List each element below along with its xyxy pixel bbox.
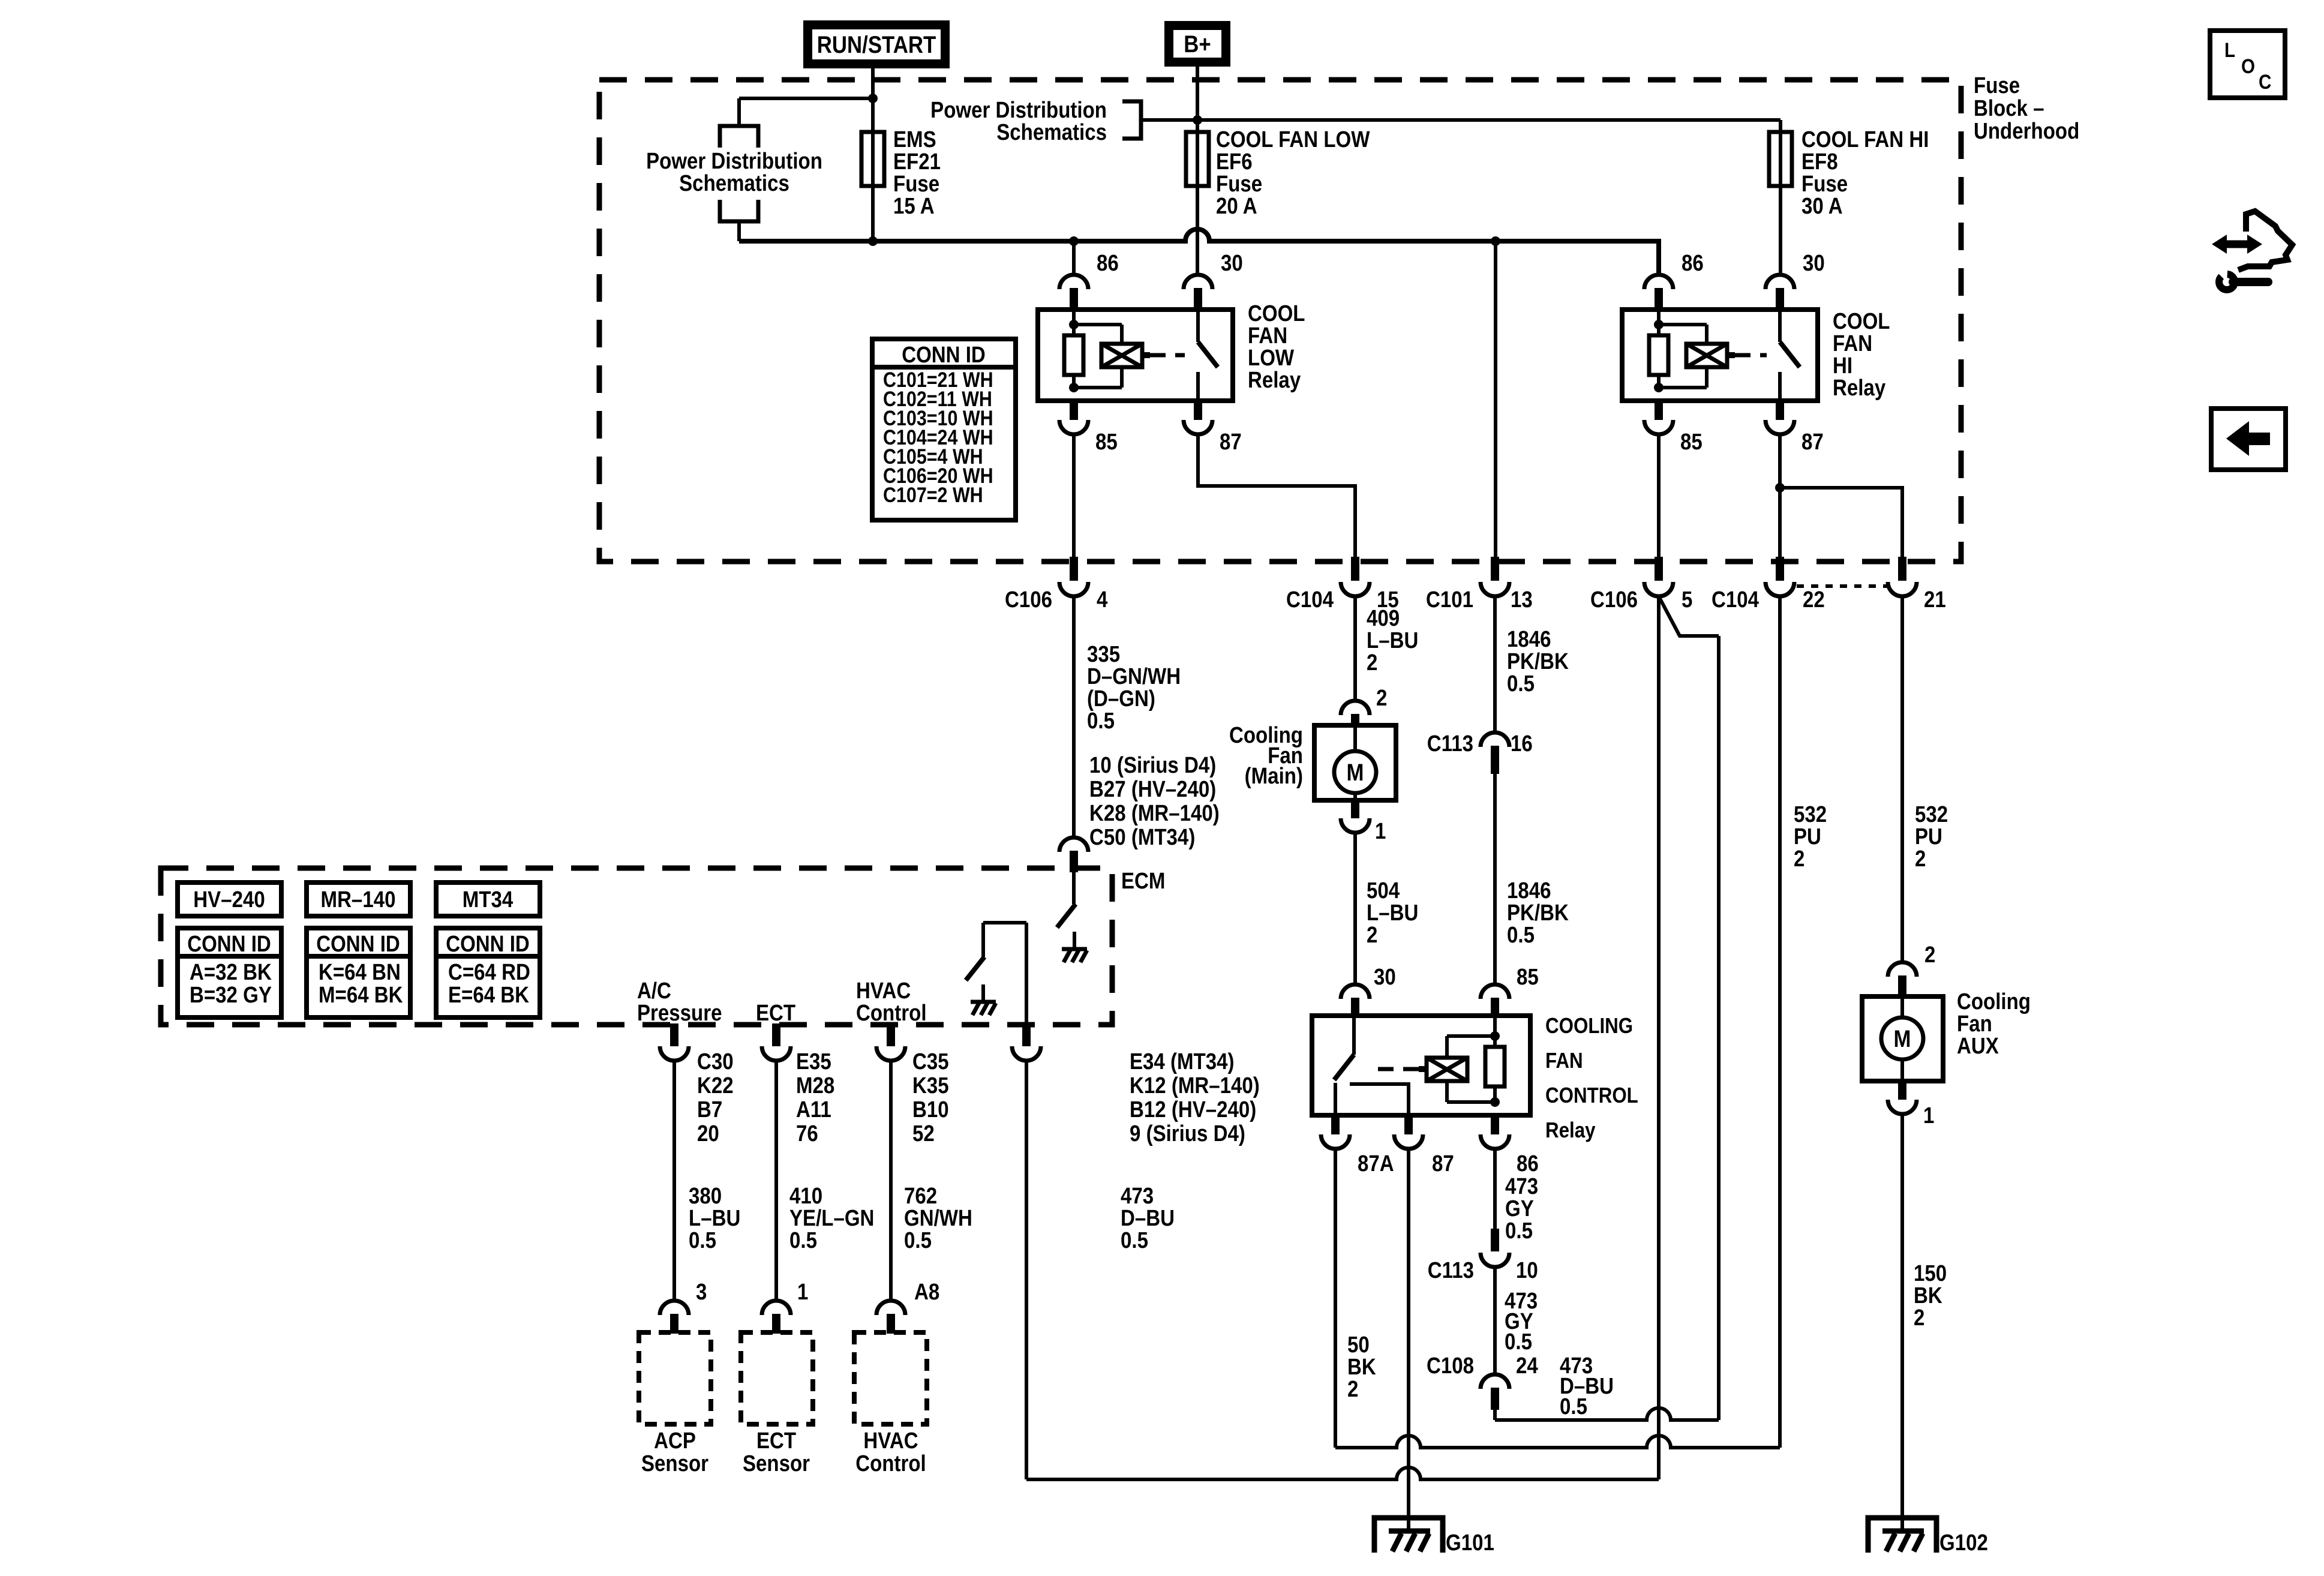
svg-text:HVAC: HVAC bbox=[863, 1428, 918, 1454]
svg-text:22: 22 bbox=[1803, 587, 1825, 613]
svg-text:21: 21 bbox=[1924, 587, 1946, 613]
svg-text:Sensor: Sensor bbox=[743, 1451, 810, 1476]
svg-text:9 (Sirius D4): 9 (Sirius D4) bbox=[1130, 1121, 1245, 1146]
svg-text:0.5: 0.5 bbox=[1087, 708, 1115, 734]
svg-text:COOLING: COOLING bbox=[1545, 1014, 1633, 1038]
svg-text:C=64 RD: C=64 RD bbox=[448, 959, 530, 985]
svg-text:2: 2 bbox=[1915, 846, 1926, 872]
svg-text:30: 30 bbox=[1374, 964, 1396, 990]
svg-text:O: O bbox=[2241, 55, 2255, 77]
svg-text:C113: C113 bbox=[1427, 731, 1473, 757]
svg-text:C30: C30 bbox=[697, 1049, 734, 1074]
svg-text:0.5: 0.5 bbox=[1560, 1394, 1587, 1419]
svg-text:C104: C104 bbox=[1286, 587, 1334, 613]
svg-text:2: 2 bbox=[1794, 846, 1804, 872]
svg-text:K=64 BN: K=64 BN bbox=[319, 959, 401, 985]
svg-text:CONN ID: CONN ID bbox=[446, 931, 530, 957]
svg-text:20: 20 bbox=[697, 1121, 719, 1146]
svg-text:K22: K22 bbox=[697, 1073, 734, 1098]
svg-text:ACP: ACP bbox=[654, 1428, 696, 1454]
svg-text:C106: C106 bbox=[1005, 587, 1052, 613]
svg-text:2: 2 bbox=[1376, 685, 1387, 711]
svg-text:C104: C104 bbox=[1712, 587, 1759, 613]
svg-text:B=32 GY: B=32 GY bbox=[190, 982, 272, 1008]
svg-text:87: 87 bbox=[1432, 1151, 1454, 1176]
svg-text:C35: C35 bbox=[912, 1049, 949, 1074]
svg-text:Pressure: Pressure bbox=[637, 1000, 722, 1026]
svg-text:86: 86 bbox=[1097, 250, 1119, 276]
svg-text:C50 (MT34): C50 (MT34) bbox=[1089, 824, 1195, 850]
svg-text:HV–240: HV–240 bbox=[193, 887, 265, 912]
svg-text:RUN/START: RUN/START bbox=[817, 31, 936, 58]
svg-text:B12 (HV–240): B12 (HV–240) bbox=[1130, 1097, 1256, 1122]
svg-text:Control: Control bbox=[855, 1451, 926, 1476]
svg-text:A11: A11 bbox=[796, 1097, 831, 1122]
svg-text:ECM: ECM bbox=[1121, 868, 1165, 894]
svg-text:(Main): (Main) bbox=[1245, 763, 1303, 789]
svg-text:0.5: 0.5 bbox=[1507, 922, 1535, 948]
svg-text:30: 30 bbox=[1221, 250, 1243, 276]
svg-text:CONN ID: CONN ID bbox=[902, 342, 986, 368]
svg-text:0.5: 0.5 bbox=[1505, 1329, 1532, 1355]
svg-text:K35: K35 bbox=[912, 1073, 949, 1098]
svg-text:0.5: 0.5 bbox=[1121, 1227, 1148, 1253]
svg-text:CONTROL: CONTROL bbox=[1545, 1083, 1638, 1108]
svg-text:Schematics: Schematics bbox=[679, 170, 789, 196]
svg-text:M: M bbox=[1894, 1025, 1911, 1052]
svg-text:2: 2 bbox=[1367, 922, 1377, 948]
svg-text:Underhood: Underhood bbox=[1974, 118, 2079, 144]
svg-text:ECT: ECT bbox=[756, 1428, 796, 1454]
svg-text:0.5: 0.5 bbox=[904, 1227, 932, 1253]
svg-text:C: C bbox=[2259, 70, 2271, 93]
svg-text:2: 2 bbox=[1367, 650, 1377, 676]
svg-text:87: 87 bbox=[1801, 429, 1824, 455]
svg-text:1: 1 bbox=[1375, 818, 1386, 844]
svg-text:Sensor: Sensor bbox=[641, 1451, 708, 1476]
svg-text:24: 24 bbox=[1516, 1353, 1538, 1379]
svg-text:85: 85 bbox=[1680, 429, 1703, 455]
svg-text:MT34: MT34 bbox=[463, 887, 514, 912]
svg-text:C107=2 WH: C107=2 WH bbox=[883, 483, 983, 506]
svg-text:52: 52 bbox=[912, 1121, 935, 1146]
svg-text:Fuse: Fuse bbox=[1974, 73, 2020, 98]
svg-text:13: 13 bbox=[1511, 587, 1533, 613]
svg-text:B27 (HV–240): B27 (HV–240) bbox=[1089, 776, 1216, 802]
svg-text:Relay: Relay bbox=[1833, 375, 1885, 401]
svg-text:85: 85 bbox=[1095, 429, 1118, 455]
svg-text:M=64 BK: M=64 BK bbox=[319, 982, 403, 1008]
svg-text:1: 1 bbox=[797, 1279, 808, 1305]
svg-text:B10: B10 bbox=[912, 1097, 949, 1122]
svg-text:85: 85 bbox=[1517, 964, 1539, 990]
svg-text:4: 4 bbox=[1097, 587, 1108, 613]
svg-text:3: 3 bbox=[696, 1279, 707, 1305]
svg-text:A=32 BK: A=32 BK bbox=[190, 959, 272, 985]
svg-text:Relay: Relay bbox=[1545, 1118, 1596, 1143]
svg-text:87: 87 bbox=[1220, 429, 1242, 455]
svg-text:E=64 BK: E=64 BK bbox=[448, 982, 529, 1008]
svg-text:5: 5 bbox=[1682, 587, 1692, 613]
svg-text:10: 10 bbox=[1516, 1257, 1538, 1283]
svg-text:Block –: Block – bbox=[1974, 95, 2044, 121]
svg-text:C113: C113 bbox=[1428, 1257, 1474, 1283]
svg-text:C101: C101 bbox=[1426, 587, 1473, 613]
svg-text:K12 (MR–140): K12 (MR–140) bbox=[1130, 1073, 1260, 1098]
svg-text:2: 2 bbox=[1914, 1305, 1924, 1331]
svg-text:CONN ID: CONN ID bbox=[316, 931, 400, 957]
svg-text:0.5: 0.5 bbox=[1507, 671, 1535, 697]
svg-text:10 (Sirius D4): 10 (Sirius D4) bbox=[1089, 752, 1216, 778]
svg-text:E35: E35 bbox=[796, 1049, 831, 1074]
svg-text:E34 (MT34): E34 (MT34) bbox=[1130, 1049, 1235, 1074]
svg-text:B7: B7 bbox=[697, 1097, 722, 1122]
svg-text:A8: A8 bbox=[914, 1279, 939, 1305]
svg-text:CONN ID: CONN ID bbox=[187, 931, 271, 957]
svg-text:M28: M28 bbox=[796, 1073, 834, 1098]
svg-text:M: M bbox=[1347, 759, 1364, 786]
svg-text:0.5: 0.5 bbox=[789, 1227, 817, 1253]
svg-text:Schematics: Schematics bbox=[996, 119, 1107, 145]
svg-text:G102: G102 bbox=[1939, 1530, 1988, 1556]
svg-text:86: 86 bbox=[1517, 1151, 1539, 1176]
svg-text:Relay: Relay bbox=[1248, 367, 1301, 393]
svg-text:L: L bbox=[2224, 38, 2235, 61]
svg-text:15 A: 15 A bbox=[893, 193, 935, 219]
svg-text:C106: C106 bbox=[1590, 587, 1638, 613]
svg-text:0.5: 0.5 bbox=[689, 1227, 716, 1253]
svg-text:86: 86 bbox=[1682, 250, 1704, 276]
svg-text:K28 (MR–140): K28 (MR–140) bbox=[1089, 800, 1220, 826]
svg-text:MR–140: MR–140 bbox=[321, 887, 396, 912]
svg-text:87A: 87A bbox=[1358, 1151, 1394, 1176]
svg-text:Control: Control bbox=[856, 1000, 927, 1026]
svg-text:76: 76 bbox=[796, 1121, 818, 1146]
svg-text:30 A: 30 A bbox=[1801, 193, 1843, 219]
svg-text:16: 16 bbox=[1511, 731, 1533, 757]
svg-text:AUX: AUX bbox=[1957, 1033, 1999, 1059]
svg-text:FAN: FAN bbox=[1545, 1049, 1583, 1073]
svg-text:30: 30 bbox=[1803, 250, 1825, 276]
svg-text:2: 2 bbox=[1347, 1376, 1358, 1402]
svg-text:ECT: ECT bbox=[756, 1000, 795, 1026]
svg-text:C108: C108 bbox=[1427, 1353, 1474, 1379]
svg-text:2: 2 bbox=[1924, 942, 1935, 968]
svg-text:B+: B+ bbox=[1184, 31, 1211, 58]
svg-text:0.5: 0.5 bbox=[1505, 1218, 1533, 1244]
svg-text:1: 1 bbox=[1923, 1103, 1934, 1128]
svg-text:20 A: 20 A bbox=[1216, 193, 1257, 219]
svg-text:G101: G101 bbox=[1446, 1530, 1494, 1556]
